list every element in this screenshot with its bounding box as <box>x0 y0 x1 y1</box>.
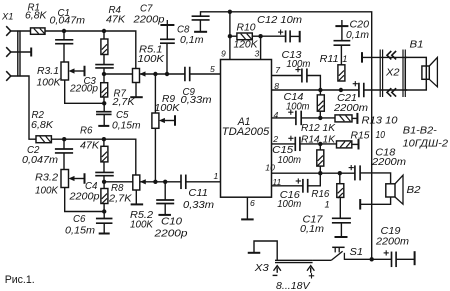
ground C19 bar <box>414 251 416 265</box>
wire C16 to pin10 net <box>308 173 321 186</box>
svg-text:X2: X2 <box>385 67 400 78</box>
label R9 value 100K <box>154 103 180 114</box>
R9 wiper terminal bar <box>174 115 176 126</box>
label C18 value 2200m <box>371 157 406 168</box>
wire B2 bottom <box>361 197 391 204</box>
label R8 value 2,7K <box>108 194 132 205</box>
node pin1 net at C4/R8 <box>102 180 106 184</box>
wire pin 10 <box>272 172 355 174</box>
speaker B1 <box>405 57 437 90</box>
wire R3.2 bottom <box>65 188 105 212</box>
svg-text:R12 1K: R12 1K <box>301 123 336 134</box>
resistor R2 <box>36 136 51 143</box>
label R9 <box>162 94 176 105</box>
label pin 6 <box>250 198 255 208</box>
capacitor C4 <box>95 172 114 175</box>
wire pin5 net <box>104 73 185 75</box>
capacitor C3 <box>95 65 114 68</box>
R3.2 wiper <box>69 176 85 181</box>
svg-text:C7: C7 <box>140 3 153 14</box>
label pin 7 <box>275 65 281 75</box>
label R12 value <box>301 123 336 134</box>
svg-text:0,1m: 0,1m <box>300 224 324 235</box>
label X3 plus <box>309 273 314 278</box>
svg-text:0,33m: 0,33m <box>181 95 212 106</box>
resistor R7 <box>101 83 108 98</box>
X1 contact pin 1 <box>6 26 11 36</box>
svg-text:C12 10m: C12 10m <box>257 15 302 26</box>
label C2 value 0,047m <box>22 155 58 166</box>
node C2 junction <box>62 137 66 141</box>
node R16 top <box>338 171 342 175</box>
svg-text:S1: S1 <box>350 247 364 258</box>
resistor R10 <box>237 33 252 40</box>
wire pin 8 <box>272 89 359 91</box>
label C21 value 2200m <box>333 103 368 114</box>
wire C1 to R3.1 <box>63 44 65 62</box>
wire C6 stem <box>103 212 105 219</box>
label pin 8 <box>274 81 279 91</box>
label R5.1 <box>139 45 163 56</box>
ground C6 <box>99 233 110 235</box>
wire R12 top stem <box>319 90 321 95</box>
node pin9 rail junction <box>228 10 232 14</box>
resistor R12 <box>317 95 324 111</box>
ground C7 (top bar) <box>160 20 174 26</box>
label C12 value <box>257 15 302 26</box>
resistor R11 <box>338 65 345 81</box>
node C7 junction <box>165 72 169 76</box>
wire C2 to R3.2 <box>63 153 65 170</box>
node R8/C6/R3.2 junction <box>102 209 106 213</box>
label R7 <box>114 88 127 99</box>
wire R7 top stem <box>103 74 105 83</box>
potentiometer R3.1 <box>61 62 69 80</box>
label X3 <box>254 263 270 274</box>
label C6 <box>73 214 86 225</box>
wire C6 to ground <box>103 223 105 233</box>
potentiometer R9 (balance) <box>152 113 159 128</box>
label C6 value 0,15m <box>65 226 95 237</box>
label C13 <box>282 50 303 61</box>
wire pin1 net <box>104 181 181 183</box>
svg-text:6,8K: 6,8K <box>25 10 47 21</box>
wire pin 11 <box>272 185 303 187</box>
label C9 value 0,33m <box>181 95 212 106</box>
C18 plus <box>349 165 354 170</box>
wire X1 pin2 to bar <box>11 51 31 53</box>
node R12 top <box>318 88 322 92</box>
svg-text:100K: 100K <box>35 185 59 196</box>
node R4 top <box>102 29 106 33</box>
potentiometer R5.2 <box>133 175 140 190</box>
ground R5.1 <box>130 96 143 98</box>
label X2 <box>385 67 400 78</box>
C12 plus <box>278 30 283 35</box>
wire X3 plus to S1 <box>313 259 332 261</box>
capacitor C12 <box>286 30 291 42</box>
svg-text:2: 2 <box>272 134 278 144</box>
speaker B2 <box>386 175 403 204</box>
wire R9 bottom stem <box>154 128 156 182</box>
ground X3 <box>248 252 261 254</box>
label C14 value 100m <box>286 101 310 112</box>
wire S1 to supply node <box>344 258 371 260</box>
svg-text:2,7K: 2,7K <box>108 194 132 205</box>
label A1 <box>237 116 251 128</box>
svg-text:0,15m: 0,15m <box>65 226 95 237</box>
label C21 <box>337 93 357 104</box>
op-amp IC A1 <box>221 60 272 198</box>
wire R3.1 bottom <box>65 80 105 103</box>
label C4 <box>85 181 98 192</box>
label pin 9 <box>221 49 226 59</box>
svg-text:C11: C11 <box>188 188 208 199</box>
wire C2 stem <box>63 139 65 149</box>
C14 plus <box>288 110 293 115</box>
label C1 <box>58 8 70 19</box>
wire pin 3 line <box>260 36 262 59</box>
wire C15 to R15 <box>300 143 337 145</box>
label R10 value 120K <box>234 39 259 50</box>
wire pin 2 <box>272 143 296 145</box>
wire C8 to ground <box>199 20 201 31</box>
node R10 left <box>228 34 232 38</box>
capacitor C9 <box>185 67 190 82</box>
capacitor C17 <box>332 218 351 223</box>
label R4 value 47K <box>106 14 126 25</box>
label C15 <box>272 145 294 156</box>
svg-text:R3.1: R3.1 <box>37 66 59 77</box>
wire R15 right stem <box>352 143 358 145</box>
label C8 value 0,1m <box>180 35 204 46</box>
wire R8 to C6 node <box>103 204 105 212</box>
svg-text:C8: C8 <box>177 24 190 35</box>
svg-text:C5: C5 <box>116 110 129 121</box>
connector X2 shells <box>380 50 405 98</box>
label TDA2005 <box>222 126 270 138</box>
wire C5 to ground <box>103 114 105 125</box>
label R3.2 value 100K <box>35 185 59 196</box>
wire X1 pin3 down to R2 <box>11 76 36 139</box>
wire R13 right stem <box>352 117 357 119</box>
label pin 4 <box>274 110 279 120</box>
ground R15 bar <box>358 139 360 150</box>
label C8 <box>177 24 190 35</box>
label R3.2 <box>35 173 59 184</box>
caption Рис.1. <box>5 274 35 286</box>
label pin 5 <box>210 64 215 74</box>
capacitor C13 <box>302 69 307 83</box>
wire C5 stem <box>103 103 105 111</box>
label C18 <box>375 147 396 158</box>
label C13 value 100m <box>286 59 310 70</box>
wire C1 stem <box>63 31 65 40</box>
svg-text:0,047m: 0,047m <box>50 16 86 27</box>
capacitor C19 <box>392 252 397 267</box>
wire pin 4 <box>272 117 296 119</box>
capacitor C20 <box>334 41 351 46</box>
capacitor C14 <box>296 111 301 126</box>
label C20 value 0,1m <box>346 30 369 41</box>
label C2 <box>27 145 40 156</box>
svg-text:C4: C4 <box>85 181 98 192</box>
svg-text:R11: R11 <box>320 54 339 65</box>
label C3 value 2200p <box>69 84 99 95</box>
svg-text:X3: X3 <box>254 263 270 274</box>
wire R8 top stem <box>103 182 105 189</box>
label C3 <box>84 76 97 87</box>
wire C19 left <box>372 258 392 260</box>
svg-text:R14 1K: R14 1K <box>301 134 336 145</box>
label R11 value 1 <box>342 53 347 64</box>
wire C7 to pin5 net <box>166 43 168 74</box>
capacitor C16 <box>303 179 308 193</box>
wire C17 to ground <box>340 223 342 237</box>
R3.1 wiper terminal bar <box>84 66 86 77</box>
wire C10 to ground <box>164 204 166 215</box>
potentiometer R3.2 <box>61 170 69 188</box>
ground pin 6 <box>241 218 254 220</box>
resistor R8 <box>101 189 108 204</box>
resistor R4 <box>101 39 108 55</box>
label C4 value 2200p <box>68 192 100 203</box>
svg-text:B2: B2 <box>407 185 422 196</box>
wire C18 to B2 <box>360 173 391 184</box>
svg-text:100K: 100K <box>37 77 62 88</box>
node R14 top <box>318 142 322 146</box>
label C20 <box>350 20 370 31</box>
svg-text:2200m: 2200m <box>371 157 406 168</box>
label C16 value 100m <box>277 199 301 210</box>
svg-text:Рис.1.: Рис.1. <box>5 274 35 286</box>
label pin 3 <box>255 49 260 59</box>
svg-text:10: 10 <box>376 130 386 141</box>
wire R6 to C4 <box>103 162 105 173</box>
node supply/C19 junction <box>370 257 374 261</box>
label pin 11 <box>272 177 281 187</box>
label C5 <box>116 110 129 121</box>
label C16 <box>280 190 301 201</box>
wire C12 left <box>261 35 286 37</box>
svg-text:R3.2: R3.2 <box>35 173 59 184</box>
resistor R1 <box>31 28 46 34</box>
svg-text:8...18V: 8...18V <box>276 281 311 291</box>
label C7 value 2200p <box>132 15 165 26</box>
wire C21 to X2 <box>364 89 407 91</box>
resistor R6 <box>101 146 108 162</box>
ground B1 top bar <box>361 52 363 63</box>
svg-text:2200p: 2200p <box>68 192 100 203</box>
svg-text:X1: X1 <box>1 10 13 21</box>
wire R5.2 bottom <box>135 190 137 204</box>
svg-text:R6: R6 <box>80 125 93 136</box>
label R16 <box>311 189 330 200</box>
label R3.1 value 100K <box>37 77 62 88</box>
node C1 junction <box>62 29 66 33</box>
R5.2 wiper <box>140 179 146 184</box>
svg-text:6: 6 <box>250 198 255 208</box>
label pin 1 <box>214 171 219 181</box>
node R12 bottom <box>318 116 322 120</box>
svg-text:2200p: 2200p <box>132 15 165 26</box>
svg-text:1: 1 <box>325 199 330 210</box>
X3 plus contact <box>307 266 314 273</box>
label R13 value <box>362 115 399 126</box>
wire C20 top stem <box>341 20 343 41</box>
wire R1 to R5.1 top <box>45 31 136 69</box>
resistor R15 <box>337 141 352 148</box>
label C11 value 0,33m <box>183 200 214 211</box>
label C15 value 100m <box>278 155 302 166</box>
label B1 <box>410 39 424 50</box>
capacitor C5 <box>96 112 112 115</box>
label S1 <box>350 247 364 258</box>
svg-text:0,1m: 0,1m <box>180 35 204 46</box>
label R6 value 47K <box>80 140 100 151</box>
wire R6 top stem <box>103 139 105 146</box>
label C10 value 2200p <box>153 228 188 239</box>
label X3 voltage <box>276 281 311 291</box>
ground B2 bar <box>359 199 361 210</box>
wire R7 to C5 node <box>103 97 105 103</box>
wire R12 bottom stem <box>319 111 321 118</box>
label R16 value 1 <box>325 199 330 210</box>
label C17 value 0,1m <box>300 224 324 235</box>
svg-text:100m: 100m <box>277 199 301 210</box>
wire R4 top stem <box>103 31 105 39</box>
label C19 <box>381 226 402 237</box>
C16 plus <box>296 178 301 183</box>
R3.2 wiper terminal bar <box>84 173 86 184</box>
svg-text:100K: 100K <box>154 103 180 114</box>
label B1-B2 type <box>403 125 449 149</box>
svg-text:0,33m: 0,33m <box>183 200 214 211</box>
svg-text:R8: R8 <box>111 183 124 194</box>
label X1 <box>1 10 13 21</box>
svg-text:2200p: 2200p <box>69 84 99 95</box>
wire C7 top stem <box>166 25 168 39</box>
C19 plus <box>384 250 389 255</box>
label R2 <box>32 110 45 121</box>
X3 minus contact <box>274 266 281 273</box>
wire pin 6 stem <box>246 197 248 219</box>
svg-text:TDA2005: TDA2005 <box>222 126 270 138</box>
svg-text:0,15m: 0,15m <box>112 121 141 132</box>
wire pin 7 <box>272 75 302 77</box>
label C14 <box>284 92 305 103</box>
label R15 value <box>351 130 386 142</box>
node R9 top junction <box>153 72 157 76</box>
connector X3 <box>275 260 313 262</box>
label R3.1 <box>37 66 59 77</box>
svg-text:0,047m: 0,047m <box>22 155 58 166</box>
label R1 <box>28 3 40 14</box>
wire R10 right stem <box>252 35 260 37</box>
ground R13 bar <box>356 113 358 124</box>
svg-text:47K: 47K <box>106 14 126 25</box>
label R5.2 <box>130 210 154 221</box>
R5.1 wiper <box>140 71 146 76</box>
svg-text:2200m: 2200m <box>333 103 368 114</box>
svg-text:100K: 100K <box>130 220 154 231</box>
wire supply rail <box>201 12 372 259</box>
capacitor C10 <box>156 200 174 204</box>
label C19 value 2200m <box>375 236 409 247</box>
ground R5.2 <box>131 203 144 205</box>
wire C13 to pin8 net <box>307 76 321 91</box>
svg-text:2200m: 2200m <box>375 236 409 247</box>
ground C17 <box>335 236 348 238</box>
svg-text:47K: 47K <box>80 140 100 151</box>
wire C19 right <box>396 258 414 260</box>
node R9 bottom junction <box>153 180 157 184</box>
wire C9 to pin 5 <box>190 73 220 75</box>
wire X3 minus to ground <box>254 241 277 260</box>
resistor R14 <box>317 150 324 166</box>
resistor R13 <box>335 115 352 122</box>
ground C12 bar <box>299 31 301 42</box>
label pin 2 <box>272 134 278 144</box>
svg-text:0,1m: 0,1m <box>346 30 369 41</box>
R9 wiper <box>159 118 175 123</box>
capacitor C18 <box>355 165 360 180</box>
X2 bottom contact <box>387 88 396 96</box>
node R14 bottom <box>318 171 322 175</box>
label X3 minus <box>273 274 278 276</box>
svg-text:R15: R15 <box>351 131 371 142</box>
label R5.2 value 100K <box>130 220 154 231</box>
ground C8 <box>194 31 207 33</box>
potentiometer R5.1 <box>133 69 140 83</box>
capacitor C8 <box>192 16 210 20</box>
C13 plus <box>295 67 300 72</box>
label R7 value 2,7K <box>111 97 135 108</box>
wire R9 top stem <box>154 74 156 113</box>
wire C12 right <box>290 35 299 37</box>
label pin 10 <box>265 162 275 172</box>
svg-text:B1: B1 <box>410 39 424 50</box>
label C17 <box>303 214 324 225</box>
wire C11 to pin 1 <box>186 181 220 183</box>
X1 contact pin 3 <box>6 71 11 81</box>
wire C10 stem <box>164 182 166 200</box>
X1 contact pin 2 (common) <box>6 47 11 57</box>
label C9 <box>183 87 196 98</box>
svg-text:B1-B2-: B1-B2- <box>403 125 438 136</box>
svg-text:120K: 120K <box>234 39 259 50</box>
capacitor C2 <box>55 149 73 153</box>
label R5.1 value 100K <box>138 54 165 65</box>
label C5 value 0,15m <box>112 121 141 132</box>
node R6 top <box>102 137 106 141</box>
capacitor C15 <box>295 137 300 151</box>
ground C5 <box>98 125 109 127</box>
svg-text:100m: 100m <box>286 101 310 112</box>
capacitor C21 <box>359 83 364 98</box>
wire pin 9 line <box>229 12 231 60</box>
node R11 bottom <box>339 88 343 92</box>
node pin3 junction <box>258 34 262 38</box>
wire B1 top <box>362 56 407 58</box>
svg-text:6,8K: 6,8K <box>31 120 54 131</box>
label C11 <box>188 188 208 199</box>
svg-text:10: 10 <box>265 162 275 172</box>
label R4 <box>109 5 122 16</box>
wire R14 top stem <box>319 144 321 150</box>
X2 top contact <box>387 51 396 59</box>
svg-text:5: 5 <box>210 64 215 74</box>
